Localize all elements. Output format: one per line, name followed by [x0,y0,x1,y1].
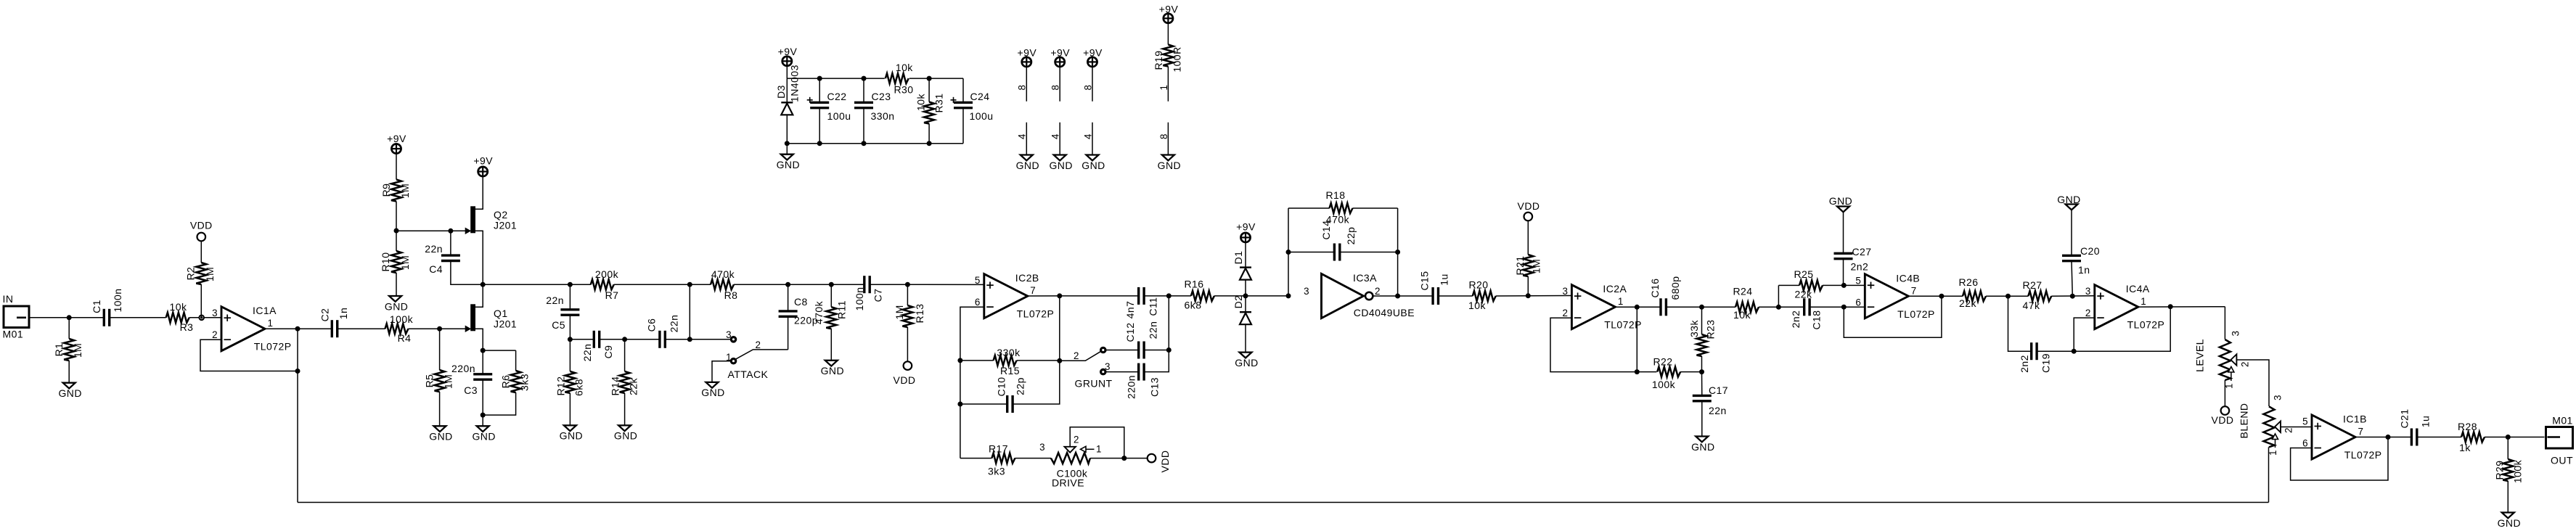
resistor R25 22k [1778,284,1799,286]
svg-text:3: 3 [1304,286,1309,297]
inverter IC3A CD4049UBE [1322,273,1364,318]
svg-text:R17: R17 [989,443,1008,455]
resistor R30 10k [886,73,909,83]
svg-text:6: 6 [975,297,981,308]
resistor R23 33k [1701,307,1703,334]
svg-text:R10: R10 [380,252,391,271]
svg-text:TL072P: TL072P [1897,308,1935,320]
capacitor C23 330n [854,102,873,104]
potentiometer LEVEL [2220,339,2231,380]
ground R29 [2502,513,2514,519]
svg-text:10k: 10k [1468,300,1486,311]
wire +9V to top rail [786,66,788,78]
node R7/R8 junction [687,282,692,287]
svg-text:2n2: 2n2 [2019,355,2030,373]
resistor R2 1M [200,284,202,318]
svg-text:GRUNT: GRUNT [1074,378,1112,390]
wire R18 right [1353,207,1398,209]
svg-text:1u: 1u [2419,416,2431,427]
wire R15 right [1017,360,1060,361]
wire output down to R22 [1636,307,1637,371]
resistor R1 1M [68,318,70,339]
svg-text:D2: D2 [1232,295,1244,309]
resistor R10 1M [396,231,397,251]
wire feedback to output [2074,307,2170,352]
wire R13 to VDD [907,327,908,361]
wire C5 bottom [569,315,571,339]
LEVEL wiper wire [2236,360,2269,406]
VDD supply DRIVE [1148,454,1156,463]
node R22/R23/C17 junction [1699,369,1704,374]
node R21 junction [1526,293,1531,298]
wire C5 top [569,284,571,310]
node C8 junction [785,282,790,287]
svg-text:10k: 10k [1733,309,1751,321]
wire IC1A output [265,328,332,329]
DRIVE wiper arrow [1065,447,1076,453]
capacitor C6 22n [658,331,661,348]
transistor Q1 J201 [470,304,475,331]
node IC3A output junction [1395,294,1400,299]
capacitor C7 100n [863,276,865,293]
wire C19 bottom rail [2008,296,2032,351]
wire C4 top [450,231,451,255]
svg-text:3: 3 [2085,286,2091,297]
resistor R12 6k8 [569,339,571,371]
wire R9 to gate node [396,202,397,231]
svg-text:C24: C24 [970,91,989,102]
node R15 left junction [957,358,962,363]
svg-text:C27: C27 [1852,246,1872,258]
wire C18 right [1810,306,1865,308]
wire DRIVE to VDD [1090,458,1147,459]
svg-text:7: 7 [2358,427,2364,437]
svg-text:+9V: +9V [1083,47,1103,59]
IC supply pin stub 2 +9V [1055,57,1065,67]
svg-text:R2: R2 [184,267,196,281]
wire IC4B feedback [1844,296,1942,337]
resistor R26 22k [1963,291,1986,301]
node C9/R14 junction [622,337,627,342]
svg-text:GND: GND [1049,160,1072,171]
svg-text:GND: GND [1691,441,1714,453]
+9V supply R9 [391,144,401,153]
svg-text:C10: C10 [995,376,1007,396]
switch GRUNT lever [1060,351,1101,361]
transistor Q2 J201 [470,206,475,233]
svg-text:C9: C9 [602,345,614,359]
svg-text:R13: R13 [914,303,925,323]
wire IC2B pin6 feedback [960,307,984,458]
svg-text:680p: 680p [1669,276,1681,300]
resistor R24 10k [1735,302,1759,312]
svg-text:C3: C3 [464,384,478,396]
op-amp IC2B TL072P [984,274,1028,318]
svg-text:1: 1 [1158,85,1169,91]
stub 2 pin 4 wire [1059,123,1060,155]
wire C2 to R4 [338,328,385,329]
wire D2 to ground [1245,324,1246,352]
svg-text:4n7: 4n7 [1124,301,1136,319]
diode D2 [1240,311,1251,313]
node IC4A output junction [2168,304,2173,309]
svg-text:IC1A: IC1A [253,305,277,316]
svg-text:C20: C20 [2080,245,2100,257]
wire C21 to R28 [2417,437,2461,438]
node IC1B output junction [2386,435,2391,440]
node C4 top junction [448,229,453,234]
svg-text:DRIVE: DRIVE [1052,477,1084,489]
svg-text:10k: 10k [915,93,926,110]
wire BLEND bottom to rail [2268,447,2270,502]
ground rail GND symbol [785,141,790,146]
svg-text:TL072P: TL072P [2344,449,2382,461]
ground C3/R6 [482,415,483,426]
capacitor C16 680p [1659,298,1661,316]
svg-text:GND: GND [1158,160,1181,171]
svg-text:ATTACK: ATTACK [728,369,769,380]
wire IC1B output [2355,437,2411,438]
svg-text:R20: R20 [1468,279,1488,291]
capacitor C20 1n [2062,255,2081,257]
wire R26 to R27 [1986,295,2028,297]
wire C19 right [2037,350,2074,352]
svg-text:1M: 1M [72,343,83,358]
wire R31 top [928,78,930,102]
svg-text:3k3: 3k3 [519,374,531,391]
capacitor C12 4n7 [1137,342,1140,359]
wire R14 to ground [624,393,626,426]
svg-text:100u: 100u [970,110,994,122]
svg-text:GND: GND [701,387,724,398]
node IC4B pin6 junction [1841,305,1847,310]
op-amp IC4B TL072P [1865,274,1908,318]
node Q1 gate junction [437,326,442,332]
svg-text:R31: R31 [933,93,944,112]
svg-text:2: 2 [1375,286,1381,297]
wire GND to C20 [2071,210,2072,255]
wire ATTACK pin1 to ground [712,361,731,382]
svg-text:TL072P: TL072P [254,341,292,353]
svg-text:R7: R7 [605,289,619,301]
svg-text:R8: R8 [724,289,738,301]
svg-text:C5: C5 [552,319,565,331]
wire R10 to ground [396,273,397,296]
wire C23 bottom [863,108,864,144]
wire LEVEL bottom to VDD [2224,380,2225,406]
resistor R5 1M [439,329,441,370]
svg-text:R16: R16 [1184,279,1203,290]
resistor R27 47k [2028,291,2051,301]
wire IN to node [29,317,104,318]
wire GND to C27 [1843,212,1844,253]
svg-text:+9V: +9V [778,46,798,57]
node input junction [67,315,72,320]
capacitor C14 22p [1333,244,1336,261]
svg-text:470k: 470k [711,268,735,280]
wire C5 node to C9 [570,339,594,340]
svg-text:TL072P: TL072P [1604,319,1642,331]
stub 3 pin 8 wire [1092,67,1093,102]
svg-text:GND: GND [1829,195,1852,207]
svg-text:R3: R3 [180,321,194,333]
wire top rail right of R30 [909,78,963,79]
capacitor C1 100n [103,309,105,326]
wire Q1 source down [475,329,483,350]
wire GRUNT pin2 to C12 [1105,350,1138,351]
svg-text:GND: GND [385,300,408,312]
svg-text:C18: C18 [1810,310,1822,329]
svg-text:22n: 22n [1147,321,1158,339]
svg-text:5: 5 [1855,275,1861,286]
svg-text:200k: 200k [595,268,619,280]
svg-text:100u: 100u [827,110,851,122]
wire C7 to R13 node [870,284,984,285]
R19 pin 8 wire [1167,123,1169,155]
stub 1 pin 8 wire [1026,67,1027,102]
svg-text:1k: 1k [2459,442,2471,453]
wire output to LEVEL pot [2224,307,2225,339]
svg-text:1: 1 [2140,296,2146,307]
wire C24 bottom [962,108,964,144]
wire R29 to ground [2507,481,2508,513]
wire R27 to C20 node [2051,295,2095,297]
svg-text:1: 1 [268,318,274,329]
wire C10 left [960,403,1007,405]
node IC4B pin5 junction [1841,283,1847,288]
wire C11 right to node [1144,295,1191,297]
+9V supply Q2 [478,167,488,176]
wire IC1B pin6 feedback [2291,437,2388,481]
wire GRUNT pin3 to C13 [1105,371,1138,373]
wire C12 right to node [1144,350,1169,351]
VDD supply R21 [1524,213,1533,221]
svg-text:R4: R4 [398,332,412,344]
DRIVE wiper wire [1070,427,1124,458]
svg-text:2: 2 [1074,435,1079,445]
output connector M01 OUT [2546,427,2573,449]
diode D1 [1240,266,1251,268]
wire C15 to R20 [1439,295,1473,297]
svg-text:R24: R24 [1733,286,1752,297]
switch ATTACK pin 3 [731,337,735,342]
node Q2 source / Q1 drain junction [481,282,486,287]
op-amp IC1B TL072P [2312,415,2355,459]
wire R24 to C18 node [1759,306,1804,308]
svg-text:2: 2 [2239,361,2250,367]
node C10 left junction [957,402,962,407]
svg-text:C21: C21 [2398,408,2410,428]
capacitor C22 100u [810,102,829,104]
resistor R7 200k [591,279,614,289]
stub 2 pin 8 wire [1059,67,1060,102]
wire R23 bottom [1701,356,1703,372]
svg-text:1u: 1u [1438,273,1449,285]
svg-text:R12: R12 [555,376,566,395]
ground ATTACK [706,382,719,388]
svg-text:3: 3 [212,308,218,318]
svg-text:IC3A: IC3A [1353,272,1377,284]
wire feedback left vertical [1288,208,1289,296]
wire R21 to VDD [1527,221,1529,255]
wire IC4A output [2138,306,2225,308]
capacitor C13 220n [1137,363,1140,381]
svg-text:C16: C16 [1649,278,1661,297]
svg-text:1N4003: 1N4003 [788,65,800,102]
svg-text:10k: 10k [170,301,187,313]
wire +9V to R9 [396,154,397,180]
wire IC2B output [1028,295,1060,297]
wire C4 bottom [451,261,483,285]
wire R4 to gate node [409,328,466,329]
capacitor C21 1u [2411,429,2413,446]
svg-text:4: 4 [1050,133,1061,139]
wire Q1 drain node to filter [483,284,591,285]
resistor R19 100R [1163,45,1173,67]
resistor R8 470k [711,279,734,289]
wire C3 bottom [482,379,483,415]
node Q1 source junction [481,348,486,353]
svg-text:C19: C19 [2040,353,2051,373]
svg-text:R5: R5 [424,374,436,388]
svg-text:220n: 220n [451,363,475,374]
wire output to C11 [1060,295,1139,297]
svg-text:+9V: +9V [473,155,493,167]
R19 pin 1 wire [1167,67,1169,102]
wire R25 branch up [1778,285,1779,307]
svg-text:GND: GND [2498,517,2521,529]
svg-text:6k8: 6k8 [1185,300,1202,311]
DRIVE adjust arrow pin 1 [1081,446,1087,452]
wire long feedback rail down [297,371,298,503]
wire R8 to C8 node [734,284,831,285]
svg-text:1n: 1n [338,308,349,319]
svg-text:C8: C8 [794,296,808,308]
svg-text:1M: 1M [399,184,411,198]
svg-text:100R: 100R [1171,46,1182,72]
node output junction [2506,435,2511,440]
svg-text:C6: C6 [645,318,657,332]
svg-text:8: 8 [1158,133,1169,139]
svg-text:22n: 22n [581,344,593,362]
svg-text:GND: GND [472,431,495,442]
wire feedback right vertical [1397,208,1399,296]
svg-text:D3: D3 [775,85,787,99]
svg-text:1M: 1M [1530,259,1542,273]
wire R18 left [1288,207,1330,209]
svg-text:M01: M01 [3,329,24,340]
svg-text:C4: C4 [429,263,443,275]
ground D2 [1240,353,1252,358]
wire C13 right up [1144,296,1169,372]
svg-text:6: 6 [2302,438,2308,449]
wire Q2 source down [475,231,483,284]
svg-text:100k: 100k [1652,379,1676,390]
svg-text:+9V: +9V [1050,47,1070,59]
potentiometer DRIVE C100k [1051,453,1090,464]
wire C14 left [1288,252,1334,253]
wire R12 to ground [569,393,571,426]
op-amp IC2A TL072P [1571,285,1615,329]
wire C16 to R24 [1666,306,1735,308]
svg-text:R21: R21 [1514,255,1526,275]
svg-text:3: 3 [726,329,732,340]
svg-text:OUT: OUT [2551,455,2573,466]
capacitor C15 1u [1431,287,1434,305]
node IC1A output junction [295,326,300,332]
BLEND wiper wire [2281,427,2312,428]
svg-text:R28: R28 [2458,421,2477,432]
svg-text:2: 2 [756,339,761,350]
bottom supply rail wire [787,143,963,144]
node DRIVE/wiper junction [1121,456,1127,461]
ground R10 [389,296,401,302]
svg-text:C11: C11 [1147,297,1158,316]
svg-text:R9: R9 [380,184,392,197]
resistor R31 10k [924,102,934,124]
svg-text:22p: 22p [1014,377,1026,395]
resistor R21 1M [1527,276,1529,296]
resistor R4 100k [385,324,409,334]
svg-text:2: 2 [1562,308,1568,318]
svg-text:IC1B: IC1B [2343,413,2367,425]
wire C20 to node [2072,261,2072,297]
wire R31 bottom [928,124,930,144]
svg-text:6: 6 [1855,297,1861,308]
IC supply pin stub 1 +9V [1022,57,1031,67]
potentiometer BLEND [2264,406,2275,447]
LEVEL adjust arrow pin 1 [2228,367,2234,373]
capacitor C18 2n2 [1803,298,1805,316]
svg-text:C23: C23 [871,91,891,102]
svg-text:R6: R6 [500,375,512,389]
node feedback bottom junction [295,369,300,374]
svg-text:R14: R14 [609,376,621,395]
node R9/R10 junction [394,229,399,234]
wire R6 bottom [483,392,515,415]
resistor R13 1M [907,284,908,305]
resistor R17 3k3 [960,458,992,459]
wire C9 to R14 node [600,339,660,340]
wire R5 to ground [439,392,441,426]
diode D3 1N4003 [781,102,793,103]
svg-text:22n: 22n [668,315,679,333]
capacitor C24 100u [954,102,973,104]
svg-text:C2: C2 [319,308,330,322]
svg-text:R11: R11 [835,300,847,319]
svg-text:C7: C7 [872,289,883,302]
capacitor C27 2n2 [1834,252,1853,255]
svg-text:2: 2 [2283,427,2294,433]
svg-text:5: 5 [2302,416,2308,427]
svg-text:100n: 100n [112,289,123,313]
svg-text:IC4B: IC4B [1896,272,1920,284]
stub 3 pin 4 wire [1092,123,1093,155]
op-amp IC1A TL072P [221,307,265,351]
wire R1 to ground [68,361,70,383]
wire C3 top [482,350,483,374]
svg-text:GND: GND [560,430,583,442]
svg-text:D1: D1 [1232,251,1244,265]
resistor R29 100k [2507,437,2508,460]
node feedback/R22 junction [1635,369,1640,374]
svg-text:VDD: VDD [894,374,916,386]
power +9V supply symbol [782,57,792,66]
resistor R20 10k [1473,291,1496,301]
svg-text:C1: C1 [91,300,102,313]
wire R16 to diode node [1214,295,1288,297]
svg-text:IN: IN [3,293,14,305]
